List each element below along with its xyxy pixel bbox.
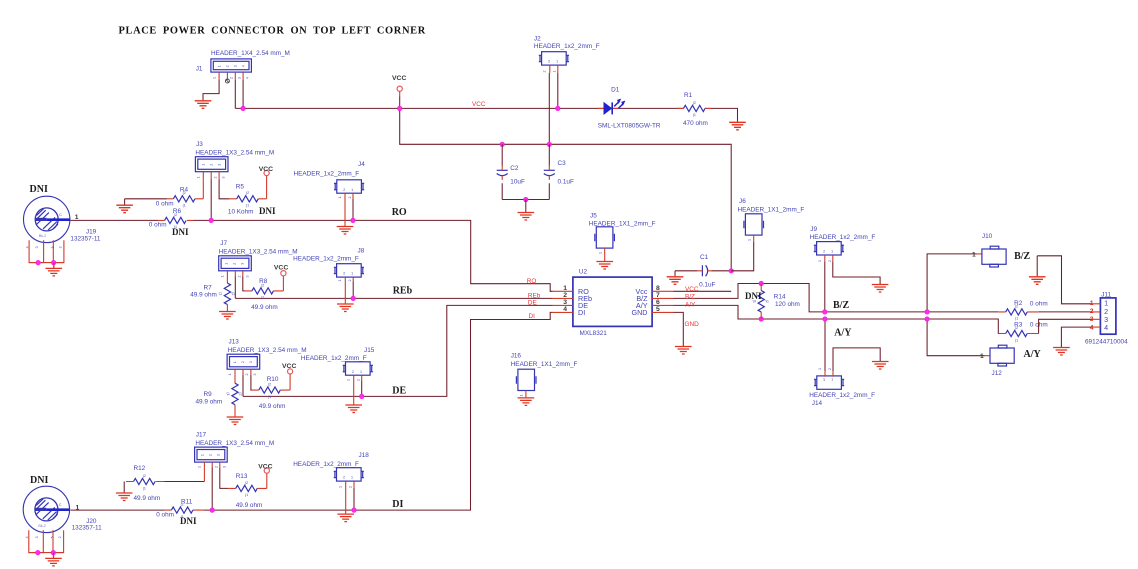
svg-text:49.9 ohm: 49.9 ohm bbox=[134, 495, 161, 502]
svg-text:49.9 ohm: 49.9 ohm bbox=[259, 403, 286, 410]
svg-text:J10: J10 bbox=[982, 233, 993, 240]
svg-text:1: 1 bbox=[520, 395, 524, 397]
svg-text:1: 1 bbox=[221, 276, 225, 278]
svg-text:DNI: DNI bbox=[745, 291, 762, 301]
svg-text:HEADER_1X3_2.54 mm_M: HEADER_1X3_2.54 mm_M bbox=[195, 150, 274, 157]
svg-text:R4: R4 bbox=[180, 187, 189, 194]
svg-text:DE: DE bbox=[528, 300, 537, 307]
svg-text:0 ohm: 0 ohm bbox=[156, 512, 174, 519]
svg-text:2: 2 bbox=[245, 374, 249, 376]
svg-text:2: 2 bbox=[230, 77, 234, 79]
svg-text:49.9 ohm: 49.9 ohm bbox=[196, 398, 223, 405]
svg-text:HEADER_1X4_2.54 mm_M: HEADER_1X4_2.54 mm_M bbox=[211, 50, 290, 57]
svg-text:J15: J15 bbox=[364, 347, 375, 354]
svg-text:HEADER_1X3_2.54 mm_M: HEADER_1X3_2.54 mm_M bbox=[195, 440, 274, 447]
svg-text:1: 1 bbox=[197, 177, 201, 179]
svg-text:R5: R5 bbox=[236, 183, 245, 190]
svg-text:HEADER_1x2_2mm_F: HEADER_1x2_2mm_F bbox=[534, 43, 600, 50]
svg-text:RO: RO bbox=[527, 278, 537, 285]
svg-text:B/Z: B/Z bbox=[685, 294, 695, 301]
svg-text:3: 3 bbox=[238, 77, 242, 79]
svg-text:49.9 ohm: 49.9 ohm bbox=[251, 304, 278, 311]
svg-text:120 ohm: 120 ohm bbox=[775, 301, 800, 308]
svg-text:1: 1 bbox=[338, 280, 342, 282]
svg-text:VCC: VCC bbox=[282, 363, 296, 370]
svg-text:3: 3 bbox=[253, 374, 257, 376]
svg-text:GND: GND bbox=[685, 321, 700, 328]
svg-text:2: 2 bbox=[215, 466, 219, 468]
svg-text:HEADER_1x2_2mm_F: HEADER_1x2_2mm_F bbox=[293, 461, 359, 468]
svg-text:D1: D1 bbox=[611, 87, 620, 94]
svg-text:2: 2 bbox=[348, 280, 352, 282]
svg-text:2: 2 bbox=[348, 197, 352, 199]
svg-text:10 Kohm: 10 Kohm bbox=[228, 208, 254, 215]
svg-text:R11: R11 bbox=[181, 499, 193, 506]
svg-text:C1: C1 bbox=[700, 254, 709, 261]
svg-text:J1: J1 bbox=[196, 66, 203, 73]
svg-text:U2: U2 bbox=[579, 268, 588, 275]
svg-text:MXL8321: MXL8321 bbox=[580, 330, 608, 337]
svg-text:HEADER_1X1_2mm_F: HEADER_1X1_2mm_F bbox=[738, 206, 805, 213]
svg-text:1: 1 bbox=[339, 486, 343, 488]
svg-text:B/Z: B/Z bbox=[833, 300, 849, 311]
svg-text:HEADER_1X3_2.54 mm_M: HEADER_1X3_2.54 mm_M bbox=[228, 347, 307, 354]
svg-text:VCC: VCC bbox=[274, 265, 288, 272]
svg-text:3: 3 bbox=[223, 466, 227, 468]
svg-text:1: 1 bbox=[228, 374, 232, 376]
svg-text:R14: R14 bbox=[774, 293, 786, 300]
svg-text:J13: J13 bbox=[229, 338, 240, 345]
svg-text:A/Y: A/Y bbox=[834, 327, 852, 338]
svg-text:DI: DI bbox=[529, 313, 536, 320]
svg-text:R7: R7 bbox=[204, 284, 213, 291]
svg-text:R13: R13 bbox=[236, 473, 248, 480]
svg-text:2: 2 bbox=[828, 368, 832, 370]
svg-text:DNI: DNI bbox=[180, 516, 197, 526]
svg-text:R10: R10 bbox=[267, 376, 279, 383]
svg-text:VCC: VCC bbox=[472, 101, 486, 108]
svg-text:VCC: VCC bbox=[258, 463, 272, 470]
svg-text:PLACE POWER CONNECTOR ON TOP L: PLACE POWER CONNECTOR ON TOP LEFT CORNER bbox=[119, 26, 426, 37]
svg-text:2: 2 bbox=[214, 177, 218, 179]
svg-text:HEADER_1X1_2mm_F: HEADER_1X1_2mm_F bbox=[589, 221, 656, 228]
svg-text:R1: R1 bbox=[684, 92, 693, 99]
svg-text:J5: J5 bbox=[590, 213, 597, 220]
svg-text:REb: REb bbox=[528, 292, 541, 299]
svg-text:C3: C3 bbox=[558, 160, 567, 167]
svg-text:J12: J12 bbox=[992, 370, 1003, 377]
svg-text:DNI: DNI bbox=[30, 184, 48, 195]
svg-text:DI: DI bbox=[392, 499, 403, 510]
svg-text:R3: R3 bbox=[1014, 321, 1023, 328]
svg-text:HEADER_1X3_2.54 mm_M: HEADER_1X3_2.54 mm_M bbox=[219, 248, 298, 255]
svg-text:2: 2 bbox=[357, 379, 361, 381]
svg-text:DE: DE bbox=[392, 385, 406, 396]
svg-text:R6: R6 bbox=[173, 208, 182, 215]
svg-text:132357-11: 132357-11 bbox=[70, 235, 101, 242]
svg-text:1: 1 bbox=[818, 368, 822, 370]
svg-text:2: 2 bbox=[828, 260, 832, 262]
svg-text:B/Z: B/Z bbox=[1014, 251, 1030, 262]
svg-text:J17: J17 bbox=[196, 432, 207, 439]
svg-text:HEADER_1x2_2mm_F: HEADER_1x2_2mm_F bbox=[810, 234, 876, 241]
svg-text:DNI: DNI bbox=[259, 206, 276, 216]
svg-text:470 ohm: 470 ohm bbox=[683, 120, 708, 127]
svg-text:3: 3 bbox=[222, 177, 226, 179]
svg-text:2: 2 bbox=[238, 276, 242, 278]
svg-text:1: 1 bbox=[972, 251, 976, 258]
svg-text:0 ohm: 0 ohm bbox=[156, 201, 174, 208]
svg-text:RO: RO bbox=[392, 207, 407, 218]
svg-text:J16: J16 bbox=[511, 352, 522, 359]
svg-text:0 ohm: 0 ohm bbox=[149, 222, 167, 229]
svg-text:R9: R9 bbox=[204, 391, 213, 398]
svg-text:1: 1 bbox=[599, 252, 603, 254]
svg-text:DNI: DNI bbox=[172, 227, 189, 237]
svg-text:49.9 ohm: 49.9 ohm bbox=[190, 291, 217, 298]
svg-text:1: 1 bbox=[198, 466, 202, 468]
svg-text:J6: J6 bbox=[739, 198, 746, 205]
svg-text:HEADER_1x2_2mm_F: HEADER_1x2_2mm_F bbox=[294, 171, 360, 178]
svg-text:10uF: 10uF bbox=[510, 179, 525, 186]
svg-text:J7: J7 bbox=[220, 240, 227, 247]
svg-text:J18: J18 bbox=[359, 452, 370, 459]
svg-text:4: 4 bbox=[1104, 323, 1108, 332]
svg-text:J14: J14 bbox=[812, 400, 823, 407]
svg-text:VCC: VCC bbox=[259, 166, 273, 173]
svg-text:0 ohm: 0 ohm bbox=[1030, 300, 1048, 307]
svg-text:R2: R2 bbox=[1014, 300, 1023, 307]
svg-text:SML-LXT0805GW-TR: SML-LXT0805GW-TR bbox=[598, 122, 661, 129]
svg-text:HEADER_1X1_2mm_F: HEADER_1X1_2mm_F bbox=[511, 361, 578, 368]
svg-text:2: 2 bbox=[543, 71, 547, 73]
svg-text:J11: J11 bbox=[1101, 292, 1111, 299]
svg-text:691244710004: 691244710004 bbox=[1085, 339, 1128, 346]
svg-text:1: 1 bbox=[338, 197, 342, 199]
svg-text:0.1uF: 0.1uF bbox=[699, 282, 715, 289]
svg-text:VCC: VCC bbox=[685, 286, 699, 293]
svg-text:1: 1 bbox=[980, 353, 984, 360]
svg-text:R12: R12 bbox=[134, 465, 146, 472]
svg-text:132357-11: 132357-11 bbox=[72, 525, 103, 532]
svg-text:VCC: VCC bbox=[392, 75, 406, 82]
svg-text:4: 4 bbox=[1090, 324, 1094, 331]
svg-text:2: 2 bbox=[349, 486, 353, 488]
svg-text:DI: DI bbox=[578, 308, 585, 317]
svg-text:GND: GND bbox=[632, 308, 648, 317]
svg-text:J3: J3 bbox=[196, 141, 203, 148]
svg-text:1: 1 bbox=[818, 260, 822, 262]
svg-text:C2: C2 bbox=[510, 165, 519, 172]
svg-text:0.1uF: 0.1uF bbox=[558, 179, 574, 186]
svg-text:HEADER_1x2_2mm_F: HEADER_1x2_2mm_F bbox=[809, 392, 875, 399]
svg-text:49.9 ohm: 49.9 ohm bbox=[236, 502, 263, 509]
svg-text:4: 4 bbox=[246, 77, 250, 79]
svg-text:1: 1 bbox=[748, 239, 752, 241]
svg-text:3: 3 bbox=[246, 276, 250, 278]
svg-text:1: 1 bbox=[347, 379, 351, 381]
svg-text:J9: J9 bbox=[810, 226, 817, 233]
svg-text:HEADER_1x2_2mm_F: HEADER_1x2_2mm_F bbox=[293, 256, 359, 263]
svg-text:1: 1 bbox=[553, 71, 557, 73]
svg-text:DNI: DNI bbox=[30, 475, 48, 486]
svg-text:J8: J8 bbox=[358, 247, 365, 254]
svg-text:J4: J4 bbox=[358, 161, 365, 168]
svg-text:J2: J2 bbox=[534, 36, 541, 43]
svg-text:A/Y: A/Y bbox=[1024, 349, 1042, 360]
svg-text:HEADER_1x2_2mm_F: HEADER_1x2_2mm_F bbox=[301, 355, 367, 362]
svg-text:A/Y: A/Y bbox=[685, 301, 696, 308]
svg-text:REb: REb bbox=[393, 286, 413, 297]
svg-text:1: 1 bbox=[213, 77, 217, 79]
svg-text:R8: R8 bbox=[259, 278, 268, 285]
